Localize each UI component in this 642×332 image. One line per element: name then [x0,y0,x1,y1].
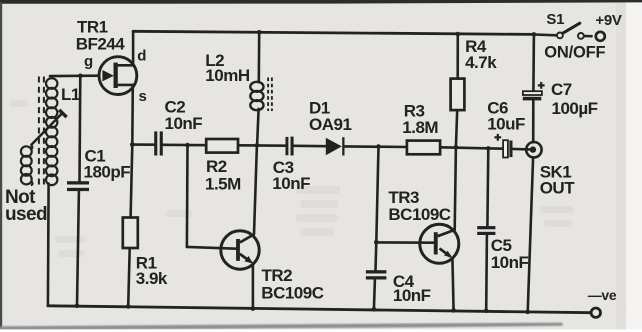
svg-text:4.7k: 4.7k [465,53,497,72]
svg-text:used: used [5,204,47,225]
svg-text:S1: S1 [546,11,564,28]
svg-text:g: g [84,53,93,70]
svg-text:10nF: 10nF [393,286,431,305]
svg-text:1.5M: 1.5M [205,174,241,193]
svg-text:C7: C7 [551,80,572,99]
svg-text:100µF: 100µF [552,99,598,118]
svg-text:+9V: +9V [595,12,622,29]
svg-text:BF244: BF244 [76,35,126,54]
svg-text:1.8M: 1.8M [402,118,438,137]
svg-text:180pF: 180pF [84,163,131,182]
svg-text:s: s [139,88,147,105]
svg-text:OUT: OUT [540,179,576,198]
svg-text:L1: L1 [61,85,80,104]
svg-text:10mH: 10mH [205,66,250,85]
svg-text:TR2: TR2 [262,266,293,285]
svg-text:10uF: 10uF [487,115,525,134]
svg-text:OA91: OA91 [309,115,351,134]
svg-text:BC109C: BC109C [261,283,323,302]
svg-text:10nF: 10nF [491,253,529,272]
svg-text:ON/OFF: ON/OFF [544,43,605,61]
svg-text:10nF: 10nF [165,114,203,133]
svg-text:10nF: 10nF [272,174,310,193]
svg-text:d: d [137,48,146,65]
svg-text:3.9k: 3.9k [136,269,168,288]
svg-text:BC109C: BC109C [388,205,450,224]
svg-text:—ve: —ve [588,287,617,303]
